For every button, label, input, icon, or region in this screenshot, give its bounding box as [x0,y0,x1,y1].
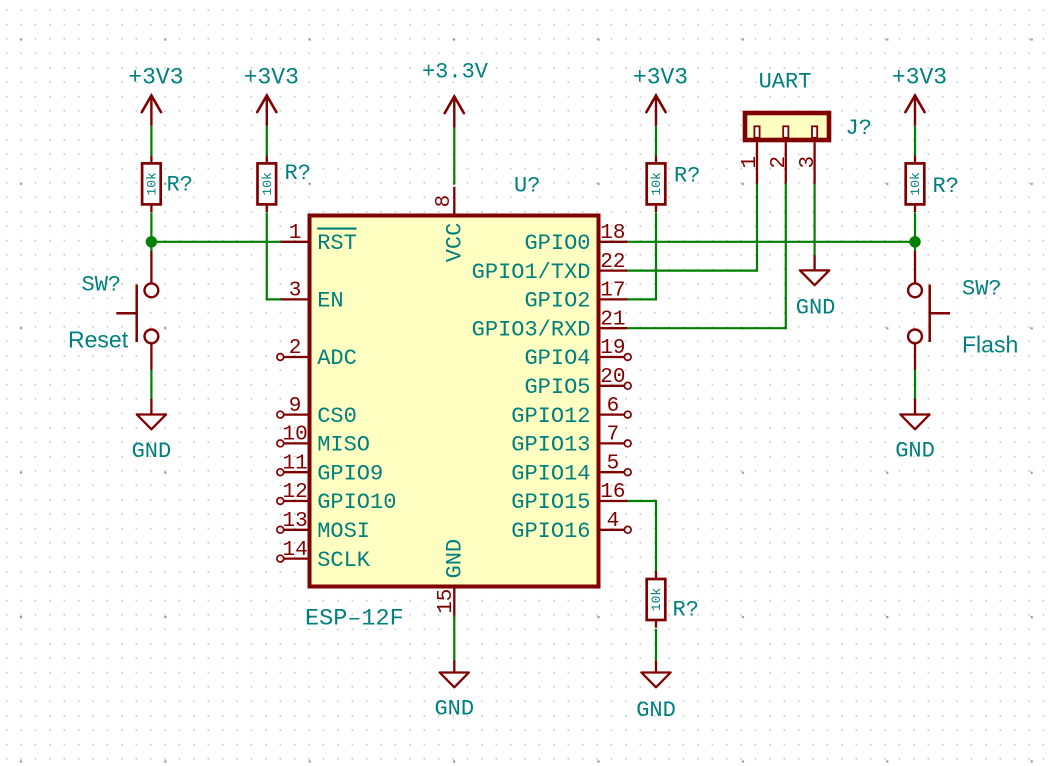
wire R5 to junction and flash switch [914,213,916,252]
svg-text:GND: GND [796,296,836,321]
connector pin 3 lead [813,142,815,183]
pin 6 GPIO12 (right) [511,395,631,429]
svg-text:5: 5 [607,452,620,475]
svg-text:SW?: SW? [962,277,1002,302]
svg-text:VCC: VCC [443,223,468,263]
pin 12 GPIO10 (left) [277,481,397,515]
pin 7 GPIO13 (right) [511,424,631,458]
pin 21 GPIO3/RXD (right) [472,308,628,342]
power symbol +3V3 at x=656.0 [633,65,688,126]
svg-text:MOSI: MOSI [317,519,370,544]
wire R1 to junction and switch (left column) [150,213,152,252]
power symbol +3V3 at x=266.8 [244,65,299,126]
wire +3V3 to R1 (left column) [150,126,152,156]
svg-text:+3V3: +3V3 [128,65,183,91]
pin 22 GPIO1/TXD (right) [472,251,628,285]
svg-text:10k: 10k [144,172,159,196]
svg-text:15: 15 [435,589,458,614]
resistor R? 10k at (266.8,163.4) [258,156,311,213]
svg-text:EN: EN [317,289,343,314]
wire GPIO1/TXD to UART pin1 corner [626,270,757,272]
connector socket pin 1 [754,126,759,138]
svg-text:GND: GND [434,697,474,722]
svg-text:6: 6 [607,395,620,418]
connector pin 2 lead [785,142,787,183]
svg-text:MISO: MISO [317,433,370,458]
svg-text:17: 17 [600,280,625,303]
pin 3 EN (left) [281,280,344,314]
wire reset switch to GND [150,369,152,400]
svg-text:3: 3 [289,280,302,303]
pin 13 MOSI (left) [277,510,370,544]
resistor R? 10k at (151.4,163.4) [142,156,193,213]
svg-text:R?: R? [285,161,311,186]
wire down to R4 10k [655,500,657,572]
IC U? ESP-12F body [310,216,599,587]
pin 10 MISO (left) [277,424,370,458]
svg-text:GPIO10: GPIO10 [317,490,396,515]
pin 1 RST (left) [281,222,357,256]
gnd stub under reset switch [150,399,152,415]
push-button switch SW? Reset [68,251,158,370]
pin 14 SCLK (left) [277,539,371,573]
svg-text:R?: R? [673,598,699,623]
svg-text:9: 9 [289,395,302,418]
svg-text:1: 1 [739,156,762,169]
power symbol +3V3 at x=915.0 [892,65,947,126]
svg-text:SW?: SW? [82,273,122,298]
svg-text:GPIO5: GPIO5 [524,375,590,400]
wire junction to RST pin [151,241,281,243]
svg-text:GND: GND [132,439,172,464]
pin 17 GPIO2 (right) [524,280,627,314]
svg-text:GPIO15: GPIO15 [511,490,590,515]
gnd stub under flash switch [914,399,916,415]
resistor R? 10k at (915.0,163.4) [906,156,959,213]
svg-text:GPIO1/TXD: GPIO1/TXD [472,260,591,285]
svg-text:GPIO0: GPIO0 [524,231,590,256]
svg-text:+3V3: +3V3 [244,65,299,91]
gnd stub UART pin3 [813,256,815,271]
wire resistor column down to GPIO2 row [655,213,657,301]
junction at (915.0,241.8) [909,236,920,247]
svg-text:UART: UART [759,70,812,95]
svg-text:1: 1 [289,222,302,245]
pin 4 GPIO16 (right) [511,510,631,544]
svg-text:10k: 10k [649,172,664,196]
wire GPIO3/RXD to UART pin2 corner [626,327,786,329]
wire GPIO15 to resistor corner [626,500,656,502]
svg-text:GPIO2: GPIO2 [524,289,590,314]
pin 20 GPIO5 (right) [524,366,631,400]
connector pin 1 lead [756,142,758,183]
svg-text:3: 3 [797,156,820,169]
svg-text:U?: U? [514,174,540,199]
svg-text:R?: R? [674,164,700,189]
svg-text:21: 21 [600,308,625,331]
push-button switch SW? Flash [908,251,1018,370]
svg-text:10k: 10k [908,172,923,196]
wire GPIO0 row to right junction [626,241,915,243]
pin 5 GPIO14 (right) [511,452,631,486]
ground symbol at (915.0,414.5) [895,415,935,464]
svg-text:20: 20 [600,366,625,389]
connector socket pin 3 [812,126,817,138]
svg-text:Flash: Flash [962,332,1018,358]
svg-text:GND: GND [895,439,935,464]
svg-text:8: 8 [433,195,456,208]
power symbol +3.3V at VCC [422,60,489,128]
svg-text:7: 7 [607,424,620,447]
svg-text:RST: RST [317,231,357,256]
svg-text:CS0: CS0 [317,404,357,429]
svg-text:10: 10 [282,424,307,447]
svg-text:GPIO4: GPIO4 [524,346,590,371]
svg-text:GPIO14: GPIO14 [511,461,590,486]
pin 15 GND (bottom) [435,539,468,616]
svg-text:12: 12 [282,481,307,504]
svg-text:4: 4 [607,510,620,533]
svg-text:GPIO13: GPIO13 [511,433,590,458]
svg-text:10k: 10k [260,172,275,196]
svg-text:10k: 10k [649,588,664,612]
connector socket pin 2 [783,126,788,138]
wire +3V3 to R2 (second column) [266,126,268,156]
wire UART pin1 down [756,183,758,272]
svg-text:R?: R? [167,173,193,198]
svg-text:GPIO9: GPIO9 [317,461,383,486]
wire UART pin2 down [785,183,787,329]
wire UART pin3 to GND [813,183,815,256]
svg-text:+3V3: +3V3 [892,65,947,91]
connector J? UART body [745,113,829,140]
wire VCC pin to +3.3V [453,128,455,185]
pin 19 GPIO4 (right) [524,337,631,371]
svg-text:GPIO12: GPIO12 [511,404,590,429]
wire +3V3 to R3 (GPIO2 pullup) [655,126,657,156]
svg-text:GND: GND [443,539,468,579]
ground symbol at (151.4,414.5) [132,415,172,465]
svg-text:ESP–12F: ESP–12F [305,606,404,633]
wire R2 down to EN row [266,213,268,300]
svg-text:GND: GND [636,698,676,723]
gnd stub under IC pin 15 [453,661,455,673]
junction at (151.4,241.8) [146,236,157,247]
ground symbol at (656.0,672.5) [636,673,676,724]
svg-text:SCLK: SCLK [317,548,371,573]
ground symbol at (454.3,672.5) [434,673,474,722]
svg-text:14: 14 [282,539,307,562]
svg-text:J?: J? [846,116,872,141]
svg-text:ADC: ADC [317,346,357,371]
svg-text:GPIO16: GPIO16 [511,519,590,544]
svg-text:GPIO3/RXD: GPIO3/RXD [472,317,591,342]
wire to EN pin [266,298,282,300]
svg-text:Reset: Reset [68,327,129,353]
svg-text:19: 19 [600,337,625,360]
svg-text:+3V3: +3V3 [633,65,688,91]
pin 8 VCC (top) [433,187,468,263]
power symbol +3V3 at x=151.4 [128,65,183,126]
wire flash switch to GND [914,369,916,400]
wire R4 to GND [655,629,657,662]
svg-text:2: 2 [289,337,302,360]
pin 18 GPIO0 (right) [524,222,627,256]
svg-text:2: 2 [768,156,791,169]
pin 2 ADC (left) [277,337,357,371]
pin 9 CS0 (left) [277,395,357,429]
resistor R? 10k at (656.0,163.4) [647,156,701,213]
svg-text:16: 16 [600,481,625,504]
wire +3V3 to R5 (right column) [914,126,916,156]
svg-text:22: 22 [600,251,625,274]
wire GND pin 15 down [453,616,455,662]
svg-text:18: 18 [600,222,625,245]
svg-text:11: 11 [282,452,307,475]
wire GPIO2 to resistor column [626,298,656,300]
svg-text:13: 13 [282,510,307,533]
svg-text:+3.3V: +3.3V [422,60,489,85]
ground symbol at (814.6,270.4) [796,270,836,320]
svg-text:R?: R? [933,174,959,199]
resistor R? 10k at (656.0,579.0) [647,571,699,628]
pin 16 GPIO15 (right) [511,481,627,515]
gnd stub under R4 [655,661,657,673]
pin 11 GPIO9 (left) [277,452,383,486]
